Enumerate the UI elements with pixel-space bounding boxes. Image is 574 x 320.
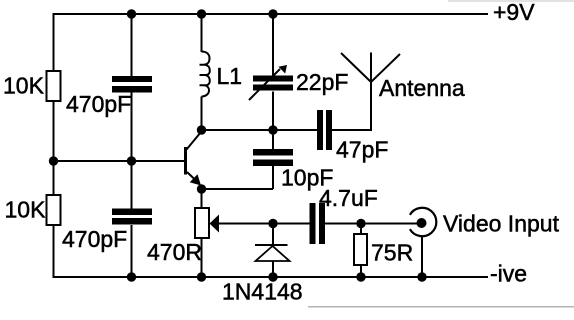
svg-text:Video Input: Video Input [443,211,560,237]
svg-text:470pF: 470pF [62,226,127,252]
svg-text:L1: L1 [217,63,243,89]
svg-text:470R: 470R [147,239,202,265]
svg-text:470pF: 470pF [66,91,131,117]
svg-text:-ive: -ive [490,261,527,287]
svg-text:10K: 10K [3,73,45,99]
svg-text:1N4148: 1N4148 [222,279,303,305]
svg-text:22pF: 22pF [296,69,348,95]
svg-text:47pF: 47pF [336,137,388,163]
svg-text:+9V: +9V [493,0,535,25]
svg-text:Antenna: Antenna [379,75,465,101]
svg-text:4.7uF: 4.7uF [319,185,378,211]
svg-text:75R: 75R [371,240,413,266]
svg-text:10K: 10K [5,197,47,223]
